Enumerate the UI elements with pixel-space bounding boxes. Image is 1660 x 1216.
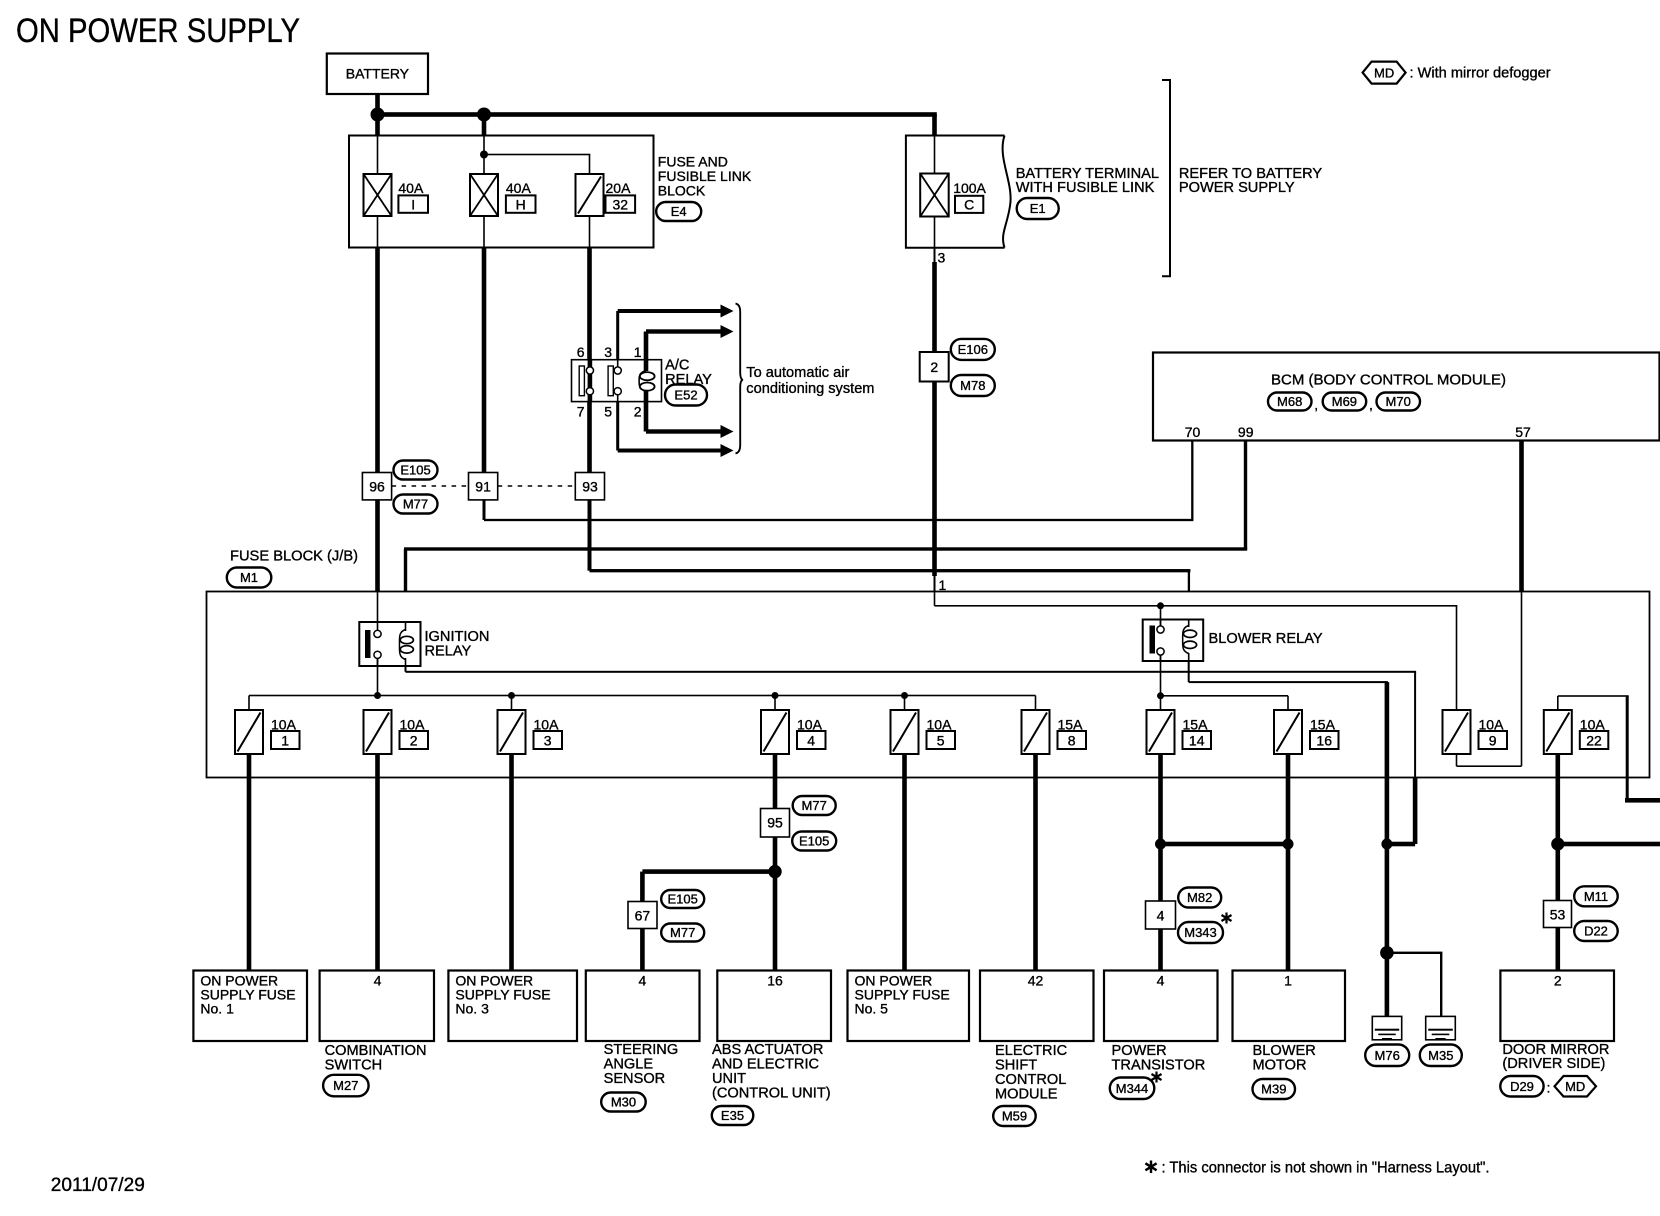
- bracket refer note: [1162, 80, 1170, 276]
- ground M35: [1420, 1016, 1462, 1066]
- svg-text:M59: M59: [1002, 1109, 1027, 1124]
- wire JB fuse bus: [248, 695, 1036, 710]
- wire fuse22 to connector 53: [1556, 844, 1561, 901]
- node battery junction: [371, 108, 385, 122]
- destination on power supply fuse no1: [193, 971, 307, 1042]
- wire fuse2 to combination switch: [375, 754, 380, 971]
- wire fuse22 tie to page edge: [1558, 842, 1660, 847]
- wire fuse1 to on power supply fuse no1: [247, 754, 252, 971]
- coil A/C relay: [639, 360, 654, 402]
- connector M68: [1268, 393, 1312, 411]
- svg-text:M77: M77: [670, 925, 695, 940]
- svg-text:4: 4: [1157, 908, 1165, 924]
- pin 3 circle: [614, 367, 621, 374]
- fuse 32 20A: [576, 174, 636, 216]
- wire battery terminal pin3 down: [932, 248, 937, 592]
- wire branch to connector 67: [640, 869, 775, 901]
- wire fusible link I output: [377, 216, 379, 248]
- legend MD with mirror defogger: [1363, 62, 1551, 84]
- node fuse16 tie: [1283, 839, 1294, 850]
- label electric shift control module: [993, 1043, 1067, 1126]
- svg-text:4: 4: [639, 973, 647, 989]
- wire through A/C relay pins 6-7: [588, 360, 593, 402]
- svg-text:96: 96: [369, 479, 385, 495]
- svg-text:M343: M343: [1184, 925, 1217, 940]
- pin 6 label: [577, 344, 585, 360]
- svg-text:,: ,: [1369, 397, 1373, 413]
- svg-text:5: 5: [937, 732, 945, 748]
- svg-text:1: 1: [939, 577, 947, 593]
- component blower motor box: [1233, 971, 1346, 1042]
- fusible link I 40A: [364, 174, 429, 216]
- node fuse14 tie: [1155, 839, 1166, 850]
- fuse 22 10A: [1544, 710, 1609, 754]
- svg-text:H: H: [516, 196, 526, 212]
- svg-text:TRANSISTOR: TRANSISTOR: [1112, 1058, 1206, 1074]
- svg-text:M68: M68: [1277, 394, 1302, 409]
- connector E105-M77 pin67: [628, 890, 704, 942]
- svg-text:M1: M1: [240, 570, 258, 585]
- wire fusible link C output: [934, 217, 936, 248]
- pin 7 circle: [586, 388, 593, 395]
- svg-text:No. 1: No. 1: [200, 1001, 234, 1017]
- connector D29: [1500, 1076, 1543, 1097]
- wire fusible link H output: [483, 216, 485, 248]
- svg-text:D22: D22: [1584, 924, 1608, 939]
- svg-text:No. 5: No. 5: [855, 1001, 889, 1017]
- svg-text:4: 4: [374, 973, 382, 989]
- wire fuse14 down: [1158, 754, 1163, 844]
- svg-text:: With mirror defogger: : With mirror defogger: [1410, 66, 1551, 82]
- svg-text:WITH FUSIBLE LINK: WITH FUSIBLE LINK: [1016, 180, 1155, 196]
- fuse 4 10A: [761, 710, 826, 754]
- wire blower switch output: [1160, 655, 1162, 696]
- svg-text:42: 42: [1028, 973, 1044, 989]
- svg-text:M30: M30: [611, 1095, 636, 1110]
- fuse 6 15A: [1022, 710, 1087, 754]
- wire blower coil ground: [1188, 661, 1390, 953]
- svg-text:MD: MD: [1565, 1079, 1585, 1094]
- wire ignition coil ground: [405, 666, 1418, 846]
- svg-text:2011/07/29: 2011/07/29: [51, 1175, 145, 1196]
- wire A/C relay feed from fuse 32: [587, 248, 592, 360]
- svg-text:M69: M69: [1332, 394, 1357, 409]
- svg-text:No. 3: No. 3: [455, 1001, 489, 1017]
- svg-text:2: 2: [410, 732, 418, 748]
- wire fusible link I to pin96: [375, 248, 380, 473]
- svg-text:E35: E35: [721, 1108, 744, 1123]
- svg-text:1: 1: [281, 732, 289, 748]
- wire fusible link H to pin91: [482, 248, 487, 473]
- title: [16, 12, 300, 50]
- svg-text:SWITCH: SWITCH: [325, 1058, 383, 1074]
- wire fuse16 down: [1286, 754, 1291, 844]
- svg-text:M11: M11: [1584, 889, 1608, 904]
- node blower out fuse14: [1157, 692, 1164, 710]
- svg-text:M39: M39: [1261, 1082, 1286, 1097]
- svg-text::: :: [1547, 1079, 1551, 1095]
- svg-text:20A: 20A: [606, 180, 632, 196]
- svg-text:RELAY: RELAY: [425, 644, 472, 660]
- ignition switch top circle: [374, 630, 381, 637]
- fuse and fusible link block E4: [349, 136, 654, 248]
- relay blower box: [1143, 620, 1204, 662]
- legend MD door mirror: [1555, 1076, 1597, 1097]
- fuse 5 10A: [891, 710, 956, 754]
- svg-text:D29: D29: [1510, 1079, 1534, 1094]
- svg-text:57: 57: [1515, 424, 1531, 440]
- wire battery bus to battery terminal: [378, 112, 937, 117]
- svg-text:MD: MD: [1374, 65, 1394, 80]
- node ground tie: [1381, 839, 1392, 850]
- wire branch to ABS unit: [773, 878, 778, 971]
- svg-text:E106: E106: [958, 342, 988, 357]
- svg-text:3: 3: [544, 732, 552, 748]
- wire to ground M35: [1387, 952, 1443, 1017]
- pin 5 label: [604, 403, 612, 419]
- wire fuse 32 output: [589, 216, 591, 248]
- svg-text:BATTERY: BATTERY: [346, 66, 410, 82]
- pin 57 label: [1515, 424, 1531, 440]
- label door mirror: [1502, 1042, 1609, 1072]
- connector M77-E105 pin96 box: [362, 473, 391, 500]
- brace to A/C system: [736, 304, 744, 454]
- wire BCM pin57 feed: [1519, 441, 1524, 592]
- contact bar ignition: [365, 630, 371, 658]
- wire pin95 down: [773, 837, 778, 872]
- svg-text:1: 1: [634, 344, 642, 360]
- svg-text:M77: M77: [403, 497, 428, 512]
- wire to ground M76: [1385, 953, 1390, 1030]
- contact bar A/C pin6: [579, 366, 584, 396]
- pin 1 label JB: [939, 577, 947, 593]
- svg-text:40A: 40A: [506, 180, 532, 196]
- svg-text:1: 1: [1284, 973, 1292, 989]
- coil blower relay: [1183, 620, 1197, 662]
- destination on power supply fuse no5: [848, 971, 970, 1042]
- node fuse22 tie: [1551, 837, 1564, 850]
- svg-text:C: C: [964, 197, 974, 213]
- wire A/C pin2 to arrow: [644, 402, 734, 438]
- svg-text:22: 22: [1586, 732, 1602, 748]
- relay ignition box: [359, 622, 420, 666]
- svg-text:8: 8: [1068, 732, 1076, 748]
- label blower relay: [1209, 631, 1323, 647]
- footnote asterisk: [1145, 1161, 1156, 1174]
- node bus fuse5: [901, 692, 908, 710]
- svg-text:E52: E52: [674, 388, 697, 403]
- fuse 16 15A: [1274, 710, 1339, 754]
- fuse 14 15A: [1147, 710, 1212, 754]
- wire drop to battery terminal E1: [932, 115, 937, 136]
- wire junction to fuse block E4: [482, 112, 487, 136]
- contact bar blower: [1150, 626, 1156, 654]
- wire A/C pin3 to arrow: [616, 305, 733, 360]
- label ABS actuator: [712, 1042, 831, 1125]
- fuse 3 10A: [498, 710, 563, 754]
- svg-text:2: 2: [1554, 973, 1562, 989]
- wire JB pin1 bus: [934, 592, 1458, 607]
- fuse block JB box: [207, 592, 1650, 778]
- wire pin91 to BCM pin70: [483, 441, 1194, 522]
- label BCM: [1271, 372, 1506, 389]
- svg-text:32: 32: [613, 196, 629, 212]
- svg-text:91: 91: [475, 479, 491, 495]
- comma 2: [1369, 397, 1373, 413]
- wire ignition switch output: [377, 658, 379, 695]
- wire E4 internal fusible link I feed: [377, 136, 379, 175]
- fuse 1 10A: [235, 710, 300, 754]
- svg-text:67: 67: [635, 908, 651, 924]
- label to automatic air conditioning system: [746, 365, 874, 397]
- svg-text:2: 2: [634, 403, 642, 419]
- asterisk M343: [1222, 913, 1232, 924]
- svg-text:MOTOR: MOTOR: [1253, 1058, 1307, 1074]
- svg-text:E4: E4: [671, 204, 687, 219]
- svg-text:4: 4: [807, 732, 815, 748]
- svg-text:I: I: [411, 196, 415, 212]
- svg-text:9: 9: [1489, 732, 1497, 748]
- wire pin67 to steering angle sensor: [640, 929, 645, 971]
- component electric shift control module box: [980, 971, 1094, 1042]
- svg-text:M82: M82: [1187, 890, 1212, 905]
- fuse 2 10A: [364, 710, 429, 754]
- wire tie fuse14-fuse16: [1161, 842, 1289, 847]
- connector M77-E105 pin95: [761, 796, 837, 851]
- svg-text:To automatic air: To automatic air: [746, 365, 849, 381]
- svg-text:5: 5: [604, 403, 612, 419]
- svg-text:POWER SUPPLY: POWER SUPPLY: [1179, 180, 1295, 196]
- blower switch top circle: [1157, 626, 1164, 633]
- wire E4 internal branch to fuse 32: [484, 154, 590, 174]
- connector M11-D22 pin53: [1544, 886, 1618, 941]
- svg-text:BCM (BODY CONTROL MODULE): BCM (BODY CONTROL MODULE): [1271, 372, 1506, 389]
- svg-text:M344: M344: [1116, 1081, 1149, 1096]
- wire fuse6 to electric shift module: [1033, 754, 1038, 971]
- svg-text:53: 53: [1550, 907, 1566, 923]
- svg-text:M35: M35: [1428, 1048, 1453, 1063]
- wire bus to blower switch: [1160, 606, 1162, 626]
- pin 2 label: [634, 403, 642, 419]
- svg-text:14: 14: [1189, 732, 1205, 748]
- component door mirror box: [1500, 971, 1614, 1042]
- svg-text:40A: 40A: [398, 180, 424, 196]
- footnote harness layout: [1162, 1160, 1490, 1177]
- svg-text:16: 16: [1316, 732, 1332, 748]
- wire pin96 to ignition relay: [375, 500, 380, 622]
- pin 7 label: [577, 403, 585, 419]
- label E4 block: [656, 153, 752, 221]
- svg-text:SENSOR: SENSOR: [604, 1071, 666, 1087]
- svg-text:M27: M27: [333, 1078, 358, 1093]
- node fusible link H junction: [477, 108, 491, 122]
- wire BCM pin99 to ignition relay coil: [404, 441, 1247, 623]
- svg-text:3: 3: [604, 344, 612, 360]
- colon D29 MD: [1547, 1079, 1551, 1095]
- node E4 internal junction: [480, 151, 488, 159]
- svg-text:E105: E105: [799, 834, 829, 849]
- svg-text:4: 4: [1157, 973, 1165, 989]
- svg-text:FUSE AND: FUSE AND: [658, 153, 728, 169]
- pin 6 circle: [586, 367, 593, 374]
- contact bar A/C pin3: [608, 366, 613, 396]
- svg-text:E105: E105: [400, 463, 430, 478]
- label blower motor: [1253, 1043, 1316, 1099]
- component power transistor box: [1104, 971, 1218, 1042]
- fusible link C 100A: [920, 174, 986, 217]
- svg-text:93: 93: [582, 479, 598, 495]
- svg-text:95: 95: [767, 815, 783, 831]
- dashed connector link 96-91: [392, 485, 469, 487]
- svg-text:M76: M76: [1375, 1048, 1400, 1063]
- node bus blower feed: [1157, 602, 1164, 609]
- connector M77 oval bottom: [394, 495, 438, 514]
- label A/C relay: [665, 358, 712, 406]
- wire fuse4 to connector 95: [773, 754, 778, 809]
- label steering angle sensor: [601, 1042, 678, 1112]
- svg-text:(DRIVER SIDE): (DRIVER SIDE): [1502, 1056, 1605, 1072]
- fuse 9 10A: [1443, 710, 1508, 754]
- blower switch bottom circle: [1157, 648, 1164, 655]
- wire blower out to fuse16: [1161, 695, 1289, 710]
- node bus fuse4: [772, 692, 779, 710]
- fusible link H 40A: [470, 174, 536, 216]
- node ground junction M76: [1380, 946, 1394, 960]
- svg-text:MODULE: MODULE: [995, 1087, 1058, 1103]
- svg-text:M70: M70: [1386, 394, 1411, 409]
- svg-text:70: 70: [1185, 424, 1201, 440]
- asterisk M344: [1152, 1072, 1162, 1083]
- wire A/C pin5 to arrow: [616, 402, 733, 457]
- node steering branch: [768, 865, 781, 878]
- wire fuse5 to on power supply fuse no5: [902, 754, 907, 971]
- connector M82-M343 pin4: [1146, 844, 1224, 943]
- battery terminal E1 box: [906, 136, 1011, 248]
- battery B1: [327, 54, 428, 95]
- svg-text:ON POWER SUPPLY: ON POWER SUPPLY: [16, 12, 300, 50]
- wire fuse3 to on power supply fuse no3: [509, 754, 514, 971]
- label power transistor: [1110, 1043, 1205, 1099]
- svg-text:FUSE BLOCK (J/B): FUSE BLOCK (J/B): [230, 549, 358, 565]
- wire A/C relay pin7 to pin93: [587, 402, 592, 473]
- svg-text:(CONTROL UNIT): (CONTROL UNIT): [712, 1086, 831, 1102]
- wire battery terminal internal feed: [934, 136, 936, 174]
- wire fuse22 down: [1556, 754, 1561, 844]
- svg-text:: This connector is not shown: : This connector is not shown in "Harnes…: [1162, 1160, 1490, 1177]
- pin 3 battery terminal: [938, 250, 946, 266]
- svg-text:M78: M78: [960, 378, 985, 393]
- module BCM box: [1153, 353, 1660, 441]
- date: [51, 1175, 145, 1196]
- connector pin93 box: [575, 473, 604, 500]
- wire A/C pin1 to arrow: [644, 325, 734, 360]
- node bus fuse3: [508, 692, 515, 710]
- wire blower switch stub: [1160, 620, 1162, 662]
- pin 1 label: [634, 344, 642, 360]
- svg-text:7: 7: [577, 403, 585, 419]
- dashed connector link 91-93: [498, 485, 576, 487]
- svg-text:conditioning system: conditioning system: [746, 381, 874, 397]
- destination on power supply fuse no3: [448, 971, 577, 1042]
- svg-text:3: 3: [938, 250, 946, 266]
- connector E106 pin 2: [920, 339, 995, 396]
- svg-text:,: ,: [1314, 397, 1318, 413]
- label refer to battery power supply: [1179, 166, 1323, 196]
- connector M69: [1323, 393, 1367, 411]
- node bus fuse2: [374, 692, 381, 699]
- pin 99 label: [1238, 424, 1254, 440]
- svg-text:M77: M77: [802, 798, 827, 813]
- coil ignition relay: [399, 622, 413, 666]
- connector pin91 box: [469, 473, 498, 500]
- wire bus to fuse 9: [1456, 606, 1458, 710]
- wire pin4 to power transistor: [1158, 929, 1163, 971]
- svg-text:2: 2: [930, 359, 938, 375]
- svg-text:16: 16: [767, 973, 783, 989]
- svg-text:100A: 100A: [953, 180, 986, 196]
- svg-text:E105: E105: [668, 892, 698, 907]
- svg-text:BLOWER RELAY: BLOWER RELAY: [1209, 631, 1323, 647]
- svg-text:99: 99: [1238, 424, 1254, 440]
- ground M76: [1365, 1016, 1409, 1066]
- wire fuse16 to blower motor: [1286, 844, 1291, 971]
- wire E4 internal fusible link H feed: [483, 136, 485, 175]
- label fuse block JB: [227, 549, 358, 588]
- pin 70 label: [1185, 424, 1201, 440]
- connector M70: [1377, 393, 1421, 411]
- wire pin93 to blower relay coil: [588, 500, 1191, 620]
- component ABS actuator box: [717, 971, 831, 1042]
- wire pin53 to door mirror: [1556, 928, 1561, 971]
- relay E52 A/C box: [572, 360, 662, 402]
- wire ignition switch stub: [377, 622, 379, 666]
- connector E105 oval top: [394, 461, 438, 480]
- svg-text:6: 6: [577, 344, 585, 360]
- wire battery to fuse block E4: [375, 94, 380, 136]
- component combination switch box: [320, 971, 434, 1042]
- comma 1: [1314, 397, 1318, 413]
- label battery terminal: [1016, 166, 1159, 219]
- component steering angle sensor box: [586, 971, 700, 1042]
- wire A/C pin3 stub: [617, 360, 619, 402]
- svg-text:BLOCK: BLOCK: [658, 183, 706, 199]
- pin 3 label: [604, 344, 612, 360]
- pin 5 circle: [614, 388, 621, 395]
- label ignition relay: [425, 629, 490, 660]
- wire fuse9 to BCM pin57: [1456, 592, 1523, 768]
- label combination switch: [323, 1043, 426, 1096]
- ignition switch bottom circle: [374, 651, 381, 658]
- wire fuse22 feed from page edge: [1557, 695, 1660, 802]
- svg-text:E1: E1: [1030, 201, 1046, 216]
